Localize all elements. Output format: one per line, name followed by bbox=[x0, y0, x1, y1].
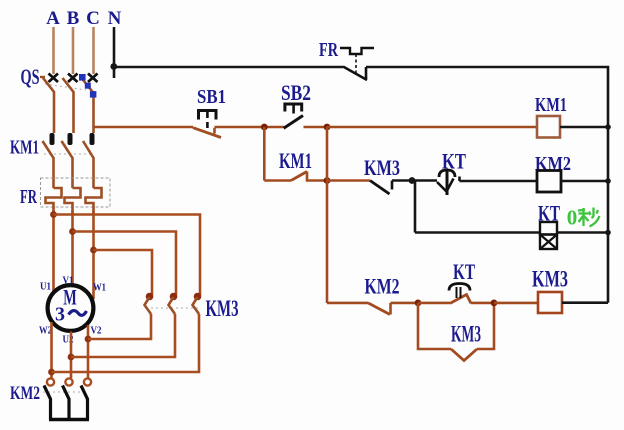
wire W2 drop bbox=[50, 322, 53, 378]
button SB2 NO blade bbox=[284, 116, 303, 129]
contactor KM3 linkage dashed bbox=[146, 307, 200, 309]
thermal relay FR heater C bbox=[86, 188, 102, 214]
button SB1 right terminal bbox=[213, 128, 216, 134]
wire B tap to KM3 pole2 bbox=[73, 232, 177, 296]
svg-text:0: 0 bbox=[567, 206, 578, 230]
contact KM2 auxiliary NO bbox=[368, 303, 418, 315]
contact FR normally-closed bbox=[340, 48, 374, 80]
contact KT delayed row2 bbox=[437, 170, 460, 195]
thermal relay FR dashed box bbox=[41, 178, 111, 207]
coil KM3 bbox=[538, 292, 562, 313]
switch QS linkage dashed bbox=[45, 84, 86, 90]
thermal relay FR heater A bbox=[46, 188, 62, 214]
thermal relay FR heater B bbox=[65, 188, 81, 214]
node junction SB1-SB2 bbox=[261, 124, 268, 131]
wire KM2 shorting bus bbox=[49, 418, 89, 421]
wire KM3NC to junction bbox=[392, 179, 437, 182]
wire row1 to KM1 coil bbox=[327, 126, 537, 129]
wire phase A to motor bbox=[52, 210, 55, 291]
svg-text:B: B bbox=[67, 8, 80, 29]
contactor KM2 pole2 bbox=[63, 378, 73, 419]
switch QS linkage blue squares bbox=[79, 74, 96, 98]
svg-text:KM2: KM2 bbox=[365, 274, 400, 299]
svg-text:KM1: KM1 bbox=[535, 94, 567, 116]
svg-text:FR: FR bbox=[319, 39, 338, 61]
svg-text:FR: FR bbox=[20, 186, 37, 208]
wire U2 drop bbox=[70, 332, 73, 379]
node row4 branch right bbox=[491, 300, 498, 307]
svg-text:SB1: SB1 bbox=[197, 86, 226, 108]
switch QS pole C bbox=[82, 74, 98, 134]
node B tap bbox=[69, 228, 76, 235]
svg-text:3: 3 bbox=[55, 304, 65, 326]
switch QS pole B bbox=[63, 74, 78, 134]
contactor KM3 pole2 bbox=[169, 293, 178, 314]
svg-text:KM3: KM3 bbox=[206, 296, 239, 321]
node right bus row1 bbox=[605, 124, 611, 130]
svg-text:V1: V1 bbox=[63, 275, 74, 287]
wire U2 tap to KM3 pole2 bottom bbox=[71, 314, 175, 357]
node junction SB2 right bbox=[324, 124, 331, 131]
coil KM2 bbox=[537, 171, 561, 193]
svg-text:N: N bbox=[108, 8, 122, 29]
wire row4 start bbox=[327, 302, 368, 305]
svg-text:U1: U1 bbox=[40, 281, 51, 293]
svg-text:W1: W1 bbox=[93, 282, 106, 294]
wire KM3 coil to right bus bbox=[562, 301, 608, 304]
motor tilde bbox=[69, 311, 87, 316]
wire KM1 branch vertical bbox=[263, 127, 266, 181]
wire phase B drop bbox=[72, 27, 75, 74]
wire KT coil branch vertical bbox=[414, 181, 417, 233]
node KT branch junction bbox=[409, 177, 416, 184]
contactor KM1 main pole B bbox=[62, 133, 73, 188]
wire KT to KM2 coil bbox=[460, 180, 538, 183]
contactor KM3 pole3 bbox=[193, 293, 202, 314]
button SB1 NC blade bbox=[193, 128, 221, 138]
svg-text:KM1: KM1 bbox=[10, 137, 39, 159]
node C tap bbox=[90, 247, 97, 254]
button SB2 head bbox=[285, 104, 302, 114]
wire W2 tap to KM3 pole3 bottom bbox=[52, 314, 200, 372]
wire C tap to KM3 pole1 bbox=[94, 250, 153, 295]
wire phase C to motor bbox=[92, 210, 95, 299]
svg-text:KT: KT bbox=[453, 259, 475, 284]
svg-text:KM3: KM3 bbox=[364, 155, 400, 180]
contactor KM2 linkage dashed bbox=[43, 391, 86, 393]
svg-text:SB2: SB2 bbox=[281, 80, 311, 105]
wire N drop bbox=[113, 27, 116, 78]
node A tap bbox=[50, 211, 57, 218]
svg-text:KM1: KM1 bbox=[279, 148, 312, 173]
coil KM1 bbox=[537, 116, 560, 138]
contact KM3 normally-closed bbox=[370, 181, 392, 195]
node right bus row2 bbox=[605, 178, 611, 184]
switch QS pole A bbox=[40, 74, 58, 134]
contactor KM1 main pole C bbox=[83, 133, 95, 188]
wire top rail right bbox=[366, 67, 608, 303]
button SB1 head bbox=[199, 111, 217, 131]
wire A tap to KM3 pole3 bbox=[54, 215, 201, 296]
contact KM3 parallel branch bbox=[418, 303, 494, 361]
svg-text:QS: QS bbox=[21, 64, 40, 89]
contact KM1 auxiliary NO bbox=[264, 172, 327, 181]
wire phase C drop bbox=[92, 27, 95, 74]
wire row2 start bbox=[327, 179, 370, 182]
wire to KM3 coil bbox=[494, 302, 538, 305]
contactor KM3 pole1 bbox=[145, 293, 154, 314]
wire N to top rail bbox=[114, 66, 343, 69]
node right bus row3 bbox=[605, 230, 611, 236]
coil KT timer bbox=[540, 222, 557, 249]
wire KT coil to right bus bbox=[557, 231, 608, 234]
contactor KM1 main linkage dashed bbox=[44, 153, 94, 155]
node U2 tap bbox=[68, 354, 75, 361]
node N corner bbox=[110, 63, 117, 70]
wire control row1 from C tap bbox=[94, 126, 194, 129]
node W2 tap bbox=[48, 369, 55, 376]
wire phase A drop bbox=[52, 27, 55, 74]
svg-text:M: M bbox=[63, 285, 77, 310]
node KM1 branch right bbox=[324, 177, 331, 184]
wire V2 tap to KM3 pole1 bottom bbox=[88, 314, 151, 339]
svg-text:KM3: KM3 bbox=[532, 267, 568, 292]
motor M circle bbox=[48, 285, 94, 331]
wire phase B to motor bbox=[71, 210, 74, 285]
svg-text:V2: V2 bbox=[91, 325, 102, 337]
wire parallel branch vertical bbox=[326, 127, 329, 303]
contactor KM2 pole3 bbox=[81, 378, 91, 419]
svg-text:C: C bbox=[86, 8, 100, 29]
wire SB1 to junction bbox=[215, 126, 328, 129]
wire KT coil row bbox=[415, 231, 540, 234]
svg-text:KM2: KM2 bbox=[10, 383, 40, 404]
contactor KM2 pole1 bbox=[44, 378, 54, 419]
wire KM1 coil to right bus bbox=[560, 126, 608, 129]
glyph miao (seconds) bbox=[578, 208, 600, 227]
contactor KM1 main pole A bbox=[43, 133, 55, 188]
svg-text:KM3: KM3 bbox=[451, 322, 481, 347]
contact KT delayed row4 bbox=[418, 284, 494, 304]
node V2 tap bbox=[85, 336, 92, 343]
wire V2 drop bbox=[87, 325, 90, 378]
svg-text:A: A bbox=[46, 8, 60, 29]
node row4 branch left bbox=[415, 300, 422, 307]
wire KM2 coil to right bus bbox=[561, 180, 608, 183]
